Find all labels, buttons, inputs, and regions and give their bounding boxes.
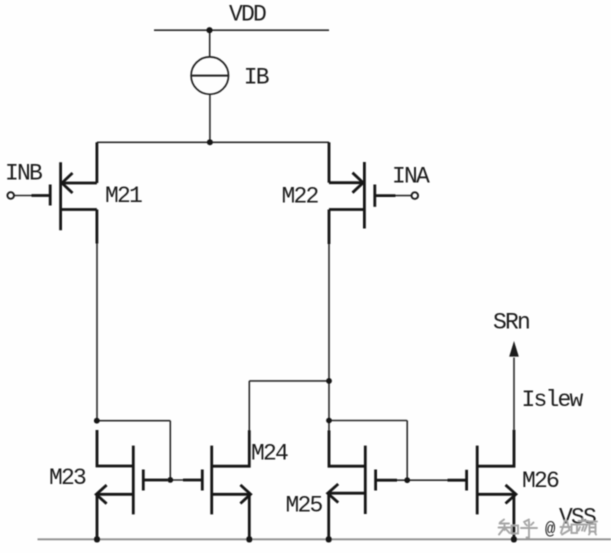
svg-text:INB: INB: [5, 161, 42, 187]
svg-text:IB: IB: [244, 65, 269, 91]
svg-text:M25: M25: [286, 492, 323, 518]
svg-text:M26: M26: [522, 468, 559, 494]
svg-text:SRn: SRn: [493, 310, 529, 336]
svg-text:M22: M22: [282, 184, 319, 210]
svg-text:M21: M21: [105, 183, 142, 209]
svg-text:INA: INA: [392, 164, 430, 190]
svg-text:M24: M24: [251, 440, 288, 466]
svg-text:@: @: [545, 521, 556, 540]
svg-text:VDD: VDD: [229, 2, 266, 28]
svg-text:Islew: Islew: [522, 387, 584, 413]
svg-text:M23: M23: [49, 465, 86, 491]
